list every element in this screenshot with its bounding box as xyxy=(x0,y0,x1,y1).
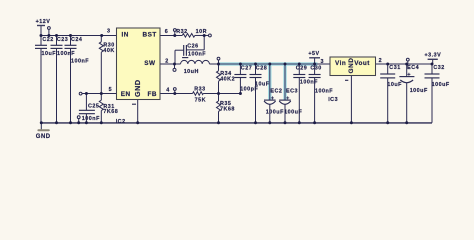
svg-text:10uH: 10uH xyxy=(184,69,199,75)
svg-text:10uF: 10uF xyxy=(255,82,270,88)
svg-text:4: 4 xyxy=(166,87,170,93)
svg-text:40K: 40K xyxy=(103,48,114,54)
svg-text:75K: 75K xyxy=(195,98,206,104)
svg-text:EN: EN xyxy=(121,91,131,98)
svg-text:C24: C24 xyxy=(71,37,82,43)
svg-text:3: 3 xyxy=(321,59,325,65)
svg-text:100nF: 100nF xyxy=(300,80,318,86)
svg-text:40K2: 40K2 xyxy=(220,77,235,83)
svg-text:C29: C29 xyxy=(296,65,307,71)
svg-text:2: 2 xyxy=(379,58,383,64)
svg-text:3: 3 xyxy=(107,29,111,35)
svg-text:100nF: 100nF xyxy=(82,116,100,122)
svg-text:C25: C25 xyxy=(88,104,99,110)
svg-text:C23: C23 xyxy=(57,37,68,43)
svg-text:+12V: +12V xyxy=(36,19,51,25)
svg-text:2: 2 xyxy=(165,59,169,65)
svg-text:7K68: 7K68 xyxy=(220,107,235,113)
svg-text:EC3: EC3 xyxy=(286,88,298,94)
svg-text:C28: C28 xyxy=(256,65,267,71)
svg-text:100nF: 100nF xyxy=(315,89,333,95)
svg-text:EC2: EC2 xyxy=(270,88,282,94)
svg-text:Vout: Vout xyxy=(354,60,370,67)
svg-text:10R: 10R xyxy=(196,29,207,35)
svg-text:BST: BST xyxy=(143,31,157,38)
svg-text:100nF: 100nF xyxy=(57,51,75,57)
svg-text:C27: C27 xyxy=(241,65,252,71)
svg-text:Vin: Vin xyxy=(335,60,346,67)
svg-text:10uF: 10uF xyxy=(42,51,57,57)
svg-text:R33: R33 xyxy=(194,87,205,93)
svg-text:+3.3V: +3.3V xyxy=(425,53,442,59)
svg-text:GND: GND xyxy=(348,58,355,74)
svg-text:C22: C22 xyxy=(42,37,53,43)
svg-text:GND: GND xyxy=(133,79,142,96)
svg-text:100nF: 100nF xyxy=(188,51,206,57)
svg-text:+5V: +5V xyxy=(308,51,319,57)
svg-text:GND: GND xyxy=(36,134,51,140)
svg-text:FB: FB xyxy=(148,91,158,98)
svg-text:100uF: 100uF xyxy=(284,110,302,116)
svg-text:IC2: IC2 xyxy=(116,119,126,125)
svg-text:C32: C32 xyxy=(433,65,444,71)
svg-text:100nF: 100nF xyxy=(71,59,89,65)
svg-text:C30: C30 xyxy=(310,65,321,71)
svg-text:100uF: 100uF xyxy=(432,82,450,88)
svg-text:C26: C26 xyxy=(187,44,198,50)
svg-text:R32: R32 xyxy=(176,29,187,35)
svg-text:IN: IN xyxy=(122,31,129,38)
svg-text:100uF: 100uF xyxy=(410,88,428,94)
svg-text:5: 5 xyxy=(109,87,113,93)
svg-text:EC4: EC4 xyxy=(407,65,419,71)
svg-text:SW: SW xyxy=(144,60,156,67)
svg-text:10uF: 10uF xyxy=(387,82,402,88)
svg-text:6: 6 xyxy=(165,29,169,35)
svg-text:100uF: 100uF xyxy=(266,110,284,116)
svg-text:C31: C31 xyxy=(389,65,400,71)
svg-text:7K68: 7K68 xyxy=(103,109,118,115)
svg-text:IC3: IC3 xyxy=(328,97,338,103)
